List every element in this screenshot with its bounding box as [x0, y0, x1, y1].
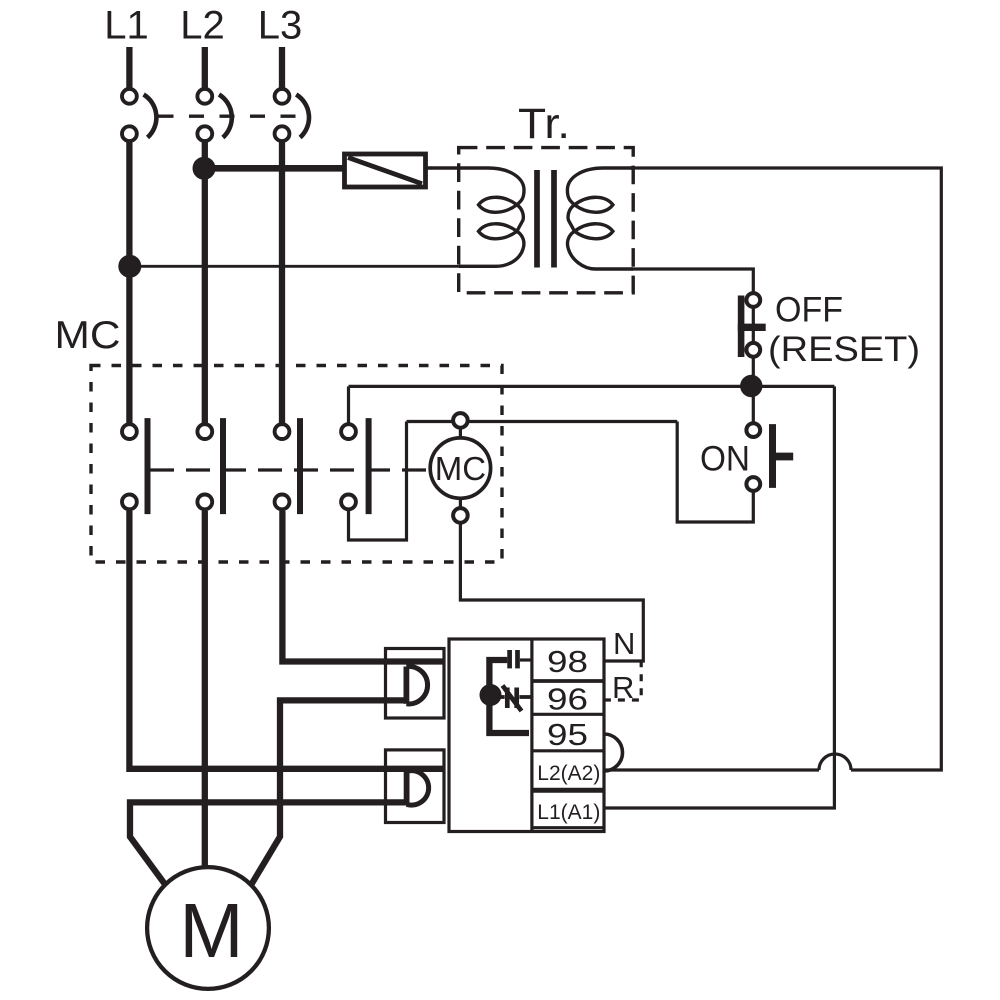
- label MC (contactor): [55, 314, 121, 357]
- contactor linkage dashed line: [150, 468, 430, 471]
- transformer Tr. label: [518, 100, 570, 148]
- overload relay terminal column divider: [530, 639, 533, 832]
- MC auxiliary contact: [341, 386, 406, 540]
- terminal label 98: [547, 644, 588, 679]
- wire bottom heater return to motor: [130, 802, 409, 885]
- jumper arc 95 to L2(A2): [604, 734, 623, 771]
- overload relay block: [449, 639, 604, 832]
- svg-text:MC: MC: [55, 314, 121, 357]
- transformer dashed enclosure: [459, 148, 634, 293]
- wire coil top stub: [459, 422, 462, 441]
- svg-text:L2: L2: [180, 4, 225, 48]
- terminal row line L2(A2)/L1(A1): [532, 788, 604, 793]
- svg-text:L3: L3: [258, 4, 303, 48]
- wire L2 to motor: [202, 511, 208, 868]
- MC main contact pole 2: [197, 418, 223, 514]
- node L2 label: [180, 4, 225, 48]
- terminal row line 95/L2(A2): [532, 749, 604, 752]
- pushbutton OFF (RESET): [738, 292, 766, 424]
- junction dot L1 tap: [118, 255, 141, 278]
- label (RESET): [768, 330, 920, 369]
- wire L2 lead-in: [202, 47, 208, 88]
- overload relay internal link bar: [489, 660, 529, 733]
- wire L1 breaker to MC contact: [126, 143, 132, 424]
- svg-text:OFF: OFF: [775, 291, 843, 330]
- svg-text:N: N: [613, 626, 635, 661]
- circuit breaker pole 3: [275, 89, 309, 141]
- overload relay heater element 1 (top): [386, 649, 445, 719]
- wire L3 breaker to MC contact: [279, 143, 285, 424]
- terminal row line 96/95: [532, 713, 604, 716]
- svg-text:L2(A2): L2(A2): [537, 762, 600, 785]
- label R (dashed alternative to 96): [612, 670, 634, 705]
- node L3 label: [258, 4, 303, 48]
- wire L2 tap to fuse: [204, 165, 345, 172]
- terminal row line 98/96: [532, 679, 604, 683]
- terminal label 95: [547, 717, 588, 752]
- coil MC: [430, 413, 490, 523]
- wire L3 to top heater: [282, 511, 444, 662]
- wire L2 breaker to MC contact: [202, 143, 208, 424]
- dashed alternative wire R to 96: [604, 661, 641, 700]
- svg-text:M: M: [179, 888, 243, 974]
- svg-text:ON: ON: [700, 440, 750, 479]
- svg-text:Tr.: Tr.: [518, 100, 570, 148]
- terminal label L2(A2): [537, 762, 600, 785]
- svg-text:L1(A1): L1(A1): [537, 801, 600, 824]
- fuse F: [345, 154, 426, 187]
- terminal label 96: [547, 682, 588, 717]
- MC main contact pole 1: [122, 418, 148, 514]
- wire right branch down to L1(A1): [604, 386, 834, 808]
- contactor MC dotted enclosure: [91, 366, 502, 563]
- label ON: [700, 440, 750, 479]
- overload relay internal node dot: [480, 684, 502, 706]
- label OFF: [775, 291, 843, 330]
- wire secondary top to right rail down to L2(A2), with crossover bump: [630, 168, 941, 770]
- wire control node to aux contact (left) and to right branch: [349, 385, 835, 388]
- transformer secondary winding: [567, 168, 633, 269]
- circuit breaker pole 1: [122, 89, 156, 141]
- MC main contact pole 3: [275, 418, 300, 514]
- circuit breaker pole 2: [197, 89, 231, 141]
- overload relay NC contact to 96: [496, 686, 532, 712]
- wire L1 to bottom heater: [129, 511, 444, 769]
- wire ON bottom return to coil line: [677, 422, 753, 523]
- svg-text:96: 96: [547, 682, 588, 717]
- transformer core bars: [537, 170, 554, 268]
- svg-text:95: 95: [547, 717, 588, 752]
- transformer primary winding: [426, 168, 525, 266]
- node L1 label: [104, 4, 149, 48]
- wire L1 tap to transformer primary bottom: [130, 265, 497, 268]
- wire crossover bump over vertical at x=834: [819, 754, 851, 770]
- wire L1 lead-in: [126, 47, 132, 88]
- wire top heater return to motor: [251, 700, 409, 885]
- wire L3 lead-in: [279, 47, 285, 88]
- wire bump to L2(A2) terminal: [604, 768, 819, 771]
- wire coil bottom to terminal 98 (N wire): [460, 496, 643, 661]
- label N (wire to 98): [613, 626, 635, 661]
- svg-text:MC: MC: [435, 450, 486, 487]
- terminal row line below L1(A1): [532, 826, 604, 829]
- svg-text:98: 98: [547, 644, 588, 679]
- breaker linkage dashed line: [159, 114, 312, 117]
- pushbutton ON: [746, 423, 793, 491]
- wire coil top line: [407, 420, 678, 423]
- motor M: [147, 867, 269, 989]
- junction dot L2 tap: [193, 157, 216, 180]
- overload relay NO contact to 98: [510, 650, 532, 668]
- svg-text:(RESET): (RESET): [768, 330, 920, 369]
- svg-text:L1: L1: [104, 4, 149, 48]
- junction dot control node: [740, 375, 762, 397]
- terminal label L1(A1): [537, 801, 600, 824]
- wire secondary bottom to OFF button: [630, 269, 753, 292]
- overload relay heater element 2 (bottom): [386, 750, 445, 823]
